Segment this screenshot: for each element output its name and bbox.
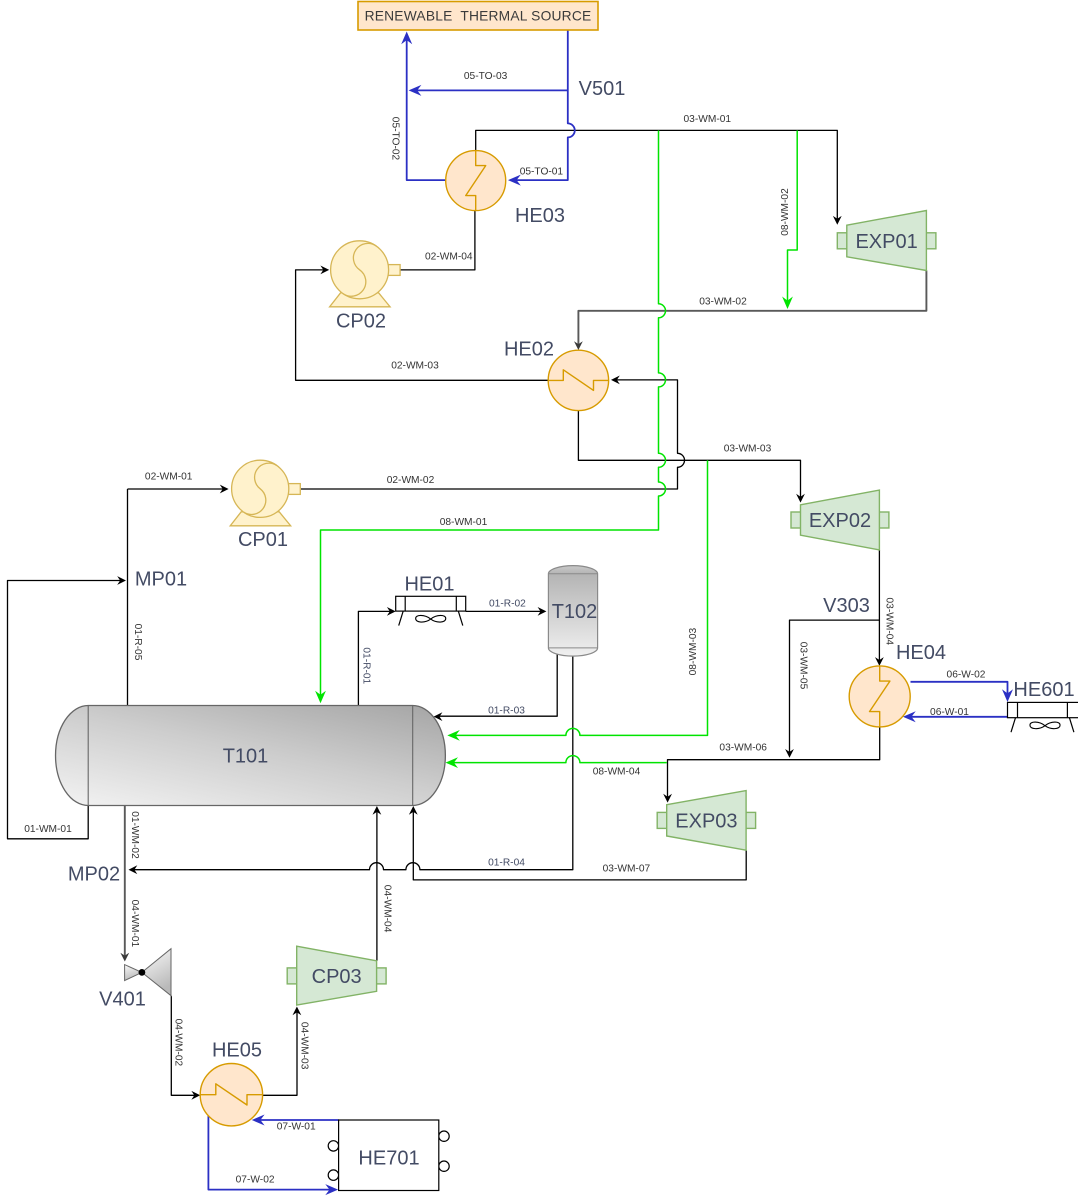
wire 01-R-04 (T102 bottom to MP02) bbox=[131, 654, 573, 870]
svg-text:01-R-05: 01-R-05 bbox=[132, 624, 143, 661]
svg-text:08-WM-03: 08-WM-03 bbox=[688, 627, 699, 675]
svg-text:HE02: HE02 bbox=[504, 339, 554, 361]
svg-text:04-WM-02: 04-WM-02 bbox=[172, 1019, 183, 1067]
expander EXP01 bbox=[837, 233, 848, 249]
wire 02-WM-01 (MP01 to CP01 inlet) bbox=[128, 488, 227, 490]
svg-text:03-WM-06: 03-WM-06 bbox=[719, 743, 767, 754]
svg-text:HE601: HE601 bbox=[1013, 679, 1074, 701]
svg-text:T102: T102 bbox=[552, 601, 598, 623]
svg-text:03-WM-05: 03-WM-05 bbox=[798, 642, 809, 690]
expander EXP03 bbox=[657, 812, 668, 828]
svg-text:05-TO-03: 05-TO-03 bbox=[464, 71, 508, 82]
svg-text:05-TO-02: 05-TO-02 bbox=[389, 117, 400, 161]
svg-text:01-WM-02: 01-WM-02 bbox=[129, 811, 140, 859]
svg-text:08-WM-02: 08-WM-02 bbox=[780, 188, 791, 236]
svg-text:EXP02: EXP02 bbox=[809, 510, 871, 532]
wire 08-WM-03 (green, 03-WM-03 line to T101 right) bbox=[450, 460, 708, 735]
svg-text:06-W-01: 06-W-01 bbox=[930, 707, 969, 718]
heat exchanger HE02 bbox=[548, 350, 608, 410]
wire 03-WM-06 (HE04 bottom to EXP03 inlet) bbox=[668, 727, 880, 800]
svg-text:MP01: MP01 bbox=[135, 569, 187, 591]
svg-text:CP02: CP02 bbox=[336, 311, 386, 333]
svg-text:04-WM-01: 04-WM-01 bbox=[129, 900, 140, 948]
svg-text:02-WM-02: 02-WM-02 bbox=[387, 475, 435, 486]
svg-text:CP01: CP01 bbox=[238, 529, 288, 551]
svg-text:05-TO-01: 05-TO-01 bbox=[520, 167, 564, 178]
svg-text:03-WM-07: 03-WM-07 bbox=[603, 864, 651, 875]
wire 02-WM-02 (CP01 outlet to HE02 right inlet) bbox=[301, 380, 685, 489]
wire 03-WM-05 (V303 branch to 03-WM-06) bbox=[790, 620, 880, 755]
svg-text:03-WM-01: 03-WM-01 bbox=[684, 114, 732, 125]
svg-text:EXP03: EXP03 bbox=[675, 810, 737, 832]
svg-text:03-WM-02: 03-WM-02 bbox=[699, 297, 747, 308]
svg-text:06-W-02: 06-W-02 bbox=[947, 670, 986, 681]
wire 07-W-01 (blue, HE701 to HE05) bbox=[255, 1119, 339, 1121]
svg-text:08-WM-04: 08-WM-04 bbox=[593, 767, 641, 778]
wire 04-WM-04 (CP03 outlet to T101 bottom) bbox=[376, 808, 378, 961]
wire 07-W-02 (blue, HE05 to HE701) bbox=[208, 1115, 335, 1189]
wire 03-WM-02 (EXP01 outlet to HE02 top) bbox=[578, 271, 926, 348]
svg-text:04-WM-03: 04-WM-03 bbox=[299, 1022, 310, 1070]
vessel T102 bbox=[548, 566, 597, 656]
svg-text:HE05: HE05 bbox=[212, 1040, 262, 1062]
heat exchanger HE03 bbox=[446, 151, 506, 211]
wire 01-R-05 / MP01 riser bbox=[127, 489, 129, 706]
wire 06-W-01 (blue, HE601 to HE04) bbox=[906, 716, 1008, 718]
wire 08-WM-01 (green, to T101 top) bbox=[321, 130, 666, 700]
wire 02-WM-04 (CP02 outlet to HE03 bottom) bbox=[401, 210, 475, 270]
svg-text:V303: V303 bbox=[823, 595, 870, 617]
valve V401 bbox=[125, 965, 142, 981]
wire 08-WM-04 (green, to T101 right) bbox=[448, 756, 667, 763]
svg-text:01-R-02: 01-R-02 bbox=[489, 599, 526, 610]
svg-text:MP02: MP02 bbox=[68, 864, 120, 886]
svg-text:V501: V501 bbox=[579, 78, 626, 100]
svg-text:03-WM-04: 03-WM-04 bbox=[884, 598, 895, 646]
svg-text:HE04: HE04 bbox=[896, 642, 946, 664]
svg-text:RENEWABLE THERMAL SOURCE: RENEWABLE THERMAL SOURCE bbox=[365, 9, 592, 24]
svg-text:02-WM-01: 02-WM-01 bbox=[145, 472, 193, 483]
svg-text:EXP01: EXP01 bbox=[855, 231, 917, 253]
svg-text:08-WM-01: 08-WM-01 bbox=[440, 517, 488, 528]
wire 02-WM-03 (HE02 left to CP02 inlet) bbox=[296, 270, 549, 380]
wire V501 supply (blue vertical) bbox=[511, 30, 575, 180]
pump CP02 bbox=[330, 293, 391, 307]
svg-text:02-WM-04: 02-WM-04 bbox=[425, 252, 473, 263]
air cooler HE601 bbox=[1008, 702, 1078, 717]
wire 01-WM-02 / 04-WM-01 (T101 bottom to V401) bbox=[124, 805, 126, 959]
wire 05-TO-03 (blue) bbox=[411, 89, 568, 91]
heat exchanger HE05 bbox=[200, 1064, 262, 1126]
wire 03-WM-03 (HE02 bottom to EXP02 inlet) bbox=[578, 411, 800, 500]
wire 01-R-02 (HE01 outlet to T102) bbox=[466, 610, 544, 612]
svg-text:CP03: CP03 bbox=[312, 966, 362, 988]
heat exchanger HE701 bbox=[328, 1141, 338, 1151]
wire 03-WM-04 (EXP02 outlet to HE04 top) bbox=[878, 550, 880, 663]
svg-text:HE01: HE01 bbox=[404, 574, 454, 596]
wire 04-WM-03 (HE05 to CP03 inlet) bbox=[263, 1009, 297, 1095]
svg-text:HE701: HE701 bbox=[358, 1148, 419, 1170]
svg-text:V401: V401 bbox=[99, 989, 146, 1011]
compressor CP03 bbox=[287, 968, 298, 984]
wire 04-WM-02 (V401 to HE05 inlet) bbox=[171, 996, 197, 1096]
wire 01-R-03 (T102 bottom to T101) bbox=[436, 651, 557, 716]
wire 01-R-01 (T101 top to HE01 inlet) bbox=[358, 611, 393, 705]
wire 03-WM-01 (HE03 top to EXP01 inlet) bbox=[476, 130, 838, 222]
svg-text:01-R-01: 01-R-01 bbox=[360, 647, 371, 684]
svg-text:07-W-01: 07-W-01 bbox=[277, 1122, 316, 1133]
wire 08-WM-02 (green, to 03-WM-02) bbox=[788, 130, 798, 306]
vessel T101 bbox=[56, 706, 446, 806]
air cooler HE01 bbox=[396, 596, 466, 611]
svg-text:01-WM-01: 01-WM-01 bbox=[24, 824, 72, 835]
svg-text:T101: T101 bbox=[223, 746, 269, 768]
svg-text:02-WM-03: 02-WM-03 bbox=[391, 361, 439, 372]
svg-text:07-W-02: 07-W-02 bbox=[236, 1175, 275, 1186]
pump CP01 bbox=[230, 512, 291, 526]
wire 05-TO-02 (blue, HE03 to source box) bbox=[407, 34, 445, 180]
expander EXP02 bbox=[791, 512, 802, 528]
svg-text:01-R-04: 01-R-04 bbox=[488, 858, 525, 869]
heat exchanger HE04 bbox=[849, 666, 910, 727]
wire 01-WM-01 (T101 bottoms to MP01) bbox=[8, 581, 124, 839]
svg-text:01-R-03: 01-R-03 bbox=[488, 706, 525, 717]
wire 03-WM-07 (EXP03 outlet to T101 bottom) bbox=[413, 808, 746, 880]
svg-text:04-WM-04: 04-WM-04 bbox=[381, 885, 392, 933]
svg-text:03-WM-03: 03-WM-03 bbox=[724, 444, 772, 455]
svg-text:HE03: HE03 bbox=[515, 205, 565, 227]
wire 06-W-02 (blue, HE04 to HE601) bbox=[911, 682, 1008, 700]
renewable thermal source box bbox=[358, 2, 598, 31]
